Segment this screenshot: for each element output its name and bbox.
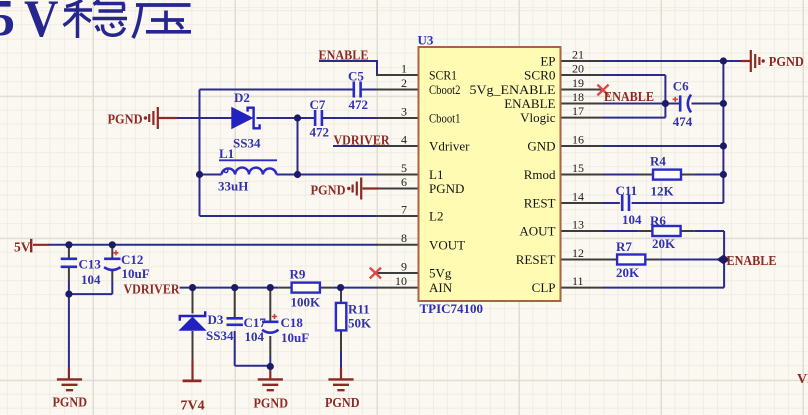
svg-text:VDRIVER: VDRIVER: [334, 132, 390, 147]
svg-text:17: 17: [572, 104, 584, 118]
svg-text:104: 104: [622, 212, 642, 227]
svg-text:VOUT: VOUT: [429, 237, 465, 252]
svg-text:C18: C18: [281, 315, 304, 330]
svg-text:33uH: 33uH: [218, 179, 248, 194]
svg-text:C12: C12: [121, 252, 143, 267]
svg-text:U3: U3: [418, 33, 434, 48]
svg-text:VD: VD: [797, 372, 808, 387]
svg-text:TPIC74100: TPIC74100: [420, 301, 484, 316]
svg-text:50K: 50K: [348, 315, 372, 330]
svg-text:1: 1: [401, 61, 407, 75]
svg-text:RESET: RESET: [516, 252, 556, 267]
svg-text:6: 6: [401, 175, 407, 189]
svg-text:20: 20: [572, 61, 584, 75]
svg-text:ENABLE: ENABLE: [319, 47, 369, 62]
svg-text:L1: L1: [219, 146, 234, 161]
svg-text:104: 104: [245, 329, 265, 344]
svg-text:PGND: PGND: [108, 112, 143, 127]
svg-text:ENABLE: ENABLE: [604, 89, 654, 104]
svg-text:10: 10: [395, 274, 407, 288]
svg-text:PGND: PGND: [769, 54, 804, 69]
svg-text:AIN: AIN: [429, 280, 453, 295]
svg-text:Cboot1: Cboot1: [429, 111, 461, 126]
svg-text:11: 11: [572, 274, 584, 288]
svg-text:104: 104: [81, 272, 101, 287]
svg-text:5: 5: [0, 0, 15, 47]
svg-text:V: V: [24, 0, 59, 48]
svg-text:18: 18: [572, 90, 584, 104]
svg-text:10uF: 10uF: [122, 266, 150, 281]
svg-text:REST: REST: [524, 196, 556, 211]
svg-text:16: 16: [572, 132, 584, 146]
svg-text:SS34: SS34: [233, 136, 261, 151]
svg-text:474: 474: [673, 114, 693, 129]
svg-text:8: 8: [401, 231, 407, 245]
svg-text:R7: R7: [616, 239, 632, 254]
svg-text:R6: R6: [650, 213, 666, 228]
svg-text:7: 7: [401, 202, 407, 216]
svg-text:20K: 20K: [616, 265, 640, 280]
svg-text:C6: C6: [673, 79, 689, 94]
svg-text:100K: 100K: [291, 295, 322, 310]
svg-text:12K: 12K: [651, 184, 675, 199]
svg-text:Vlogic: Vlogic: [520, 110, 556, 125]
svg-text:472: 472: [349, 97, 369, 112]
svg-text:13: 13: [572, 217, 584, 231]
svg-text:9: 9: [401, 259, 407, 273]
svg-text:CLP: CLP: [532, 280, 556, 295]
svg-text:472: 472: [310, 125, 330, 140]
svg-text:ENABLE: ENABLE: [504, 96, 555, 111]
svg-text:L1: L1: [429, 167, 443, 182]
svg-text:C11: C11: [616, 183, 638, 198]
svg-text:C5: C5: [348, 69, 364, 84]
svg-text:SCR1: SCR1: [429, 68, 457, 83]
svg-text:C7: C7: [310, 97, 326, 112]
svg-text:7V4: 7V4: [181, 398, 205, 413]
svg-text:D2: D2: [234, 90, 250, 105]
svg-text:14: 14: [572, 189, 584, 203]
svg-text:EP: EP: [540, 54, 555, 69]
svg-text:Vdriver: Vdriver: [429, 139, 470, 154]
svg-text:SS34: SS34: [206, 328, 234, 343]
svg-text:C17: C17: [244, 315, 267, 330]
svg-text:4: 4: [401, 132, 407, 146]
svg-text:5Vg_ENABLE: 5Vg_ENABLE: [470, 82, 556, 97]
svg-text:PGND: PGND: [429, 181, 464, 196]
svg-text:20K: 20K: [652, 236, 676, 251]
svg-text:L2: L2: [429, 209, 443, 224]
svg-text:ENABLE: ENABLE: [727, 253, 777, 268]
svg-text:AOUT: AOUT: [519, 224, 555, 239]
svg-text:12: 12: [572, 246, 584, 260]
svg-text:19: 19: [572, 76, 584, 90]
svg-text:5: 5: [401, 161, 407, 175]
svg-text:VDRIVER: VDRIVER: [124, 281, 180, 296]
svg-text:21: 21: [572, 47, 584, 61]
svg-text:GND: GND: [527, 139, 555, 154]
svg-text:C13: C13: [79, 257, 102, 272]
svg-text:10uF: 10uF: [281, 330, 309, 345]
svg-text:PGND: PGND: [254, 396, 289, 411]
svg-text:3: 3: [401, 104, 407, 118]
svg-text:D3: D3: [208, 312, 224, 327]
svg-text:15: 15: [572, 161, 584, 175]
svg-text:PGND: PGND: [311, 182, 346, 197]
svg-text:R4: R4: [650, 154, 666, 169]
svg-text:SCR0: SCR0: [524, 68, 556, 83]
svg-text:Cboot2: Cboot2: [429, 82, 461, 97]
svg-text:R9: R9: [290, 267, 306, 282]
svg-text:5V: 5V: [14, 240, 31, 255]
svg-text:PGND: PGND: [325, 396, 360, 411]
svg-text:Rmod: Rmod: [524, 167, 556, 182]
svg-text:PGND: PGND: [53, 396, 88, 411]
svg-text:R11: R11: [348, 302, 370, 317]
svg-text:2: 2: [401, 76, 407, 90]
svg-text:5Vg: 5Vg: [429, 266, 452, 281]
